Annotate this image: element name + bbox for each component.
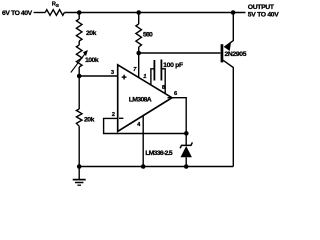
svg-text:6V TO 40V: 6V TO 40V [2, 10, 33, 17]
svg-text:LM336-2.5: LM336-2.5 [145, 150, 173, 157]
svg-text:2: 2 [112, 112, 115, 118]
svg-text:1: 1 [143, 74, 146, 80]
svg-text:OUTPUT: OUTPUT [248, 4, 275, 11]
svg-text:20k: 20k [84, 117, 95, 124]
svg-text:5V TO 40V: 5V TO 40V [248, 12, 279, 19]
svg-text:LM308A: LM308A [129, 96, 152, 103]
svg-text:20k: 20k [86, 30, 97, 37]
svg-text:100 pF: 100 pF [163, 62, 183, 69]
svg-text:560: 560 [143, 31, 153, 38]
svg-text:100k: 100k [85, 57, 99, 64]
svg-text:2N2905: 2N2905 [225, 51, 247, 58]
